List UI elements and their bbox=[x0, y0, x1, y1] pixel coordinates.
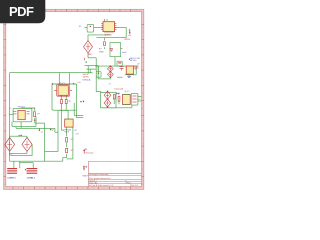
svg-text:Q?: Q? bbox=[137, 63, 139, 65]
svg-text:MCP?: MCP? bbox=[105, 35, 110, 37]
svg-text:Unnamed: Unnamed bbox=[115, 89, 124, 91]
svg-text:KiCad E.D.A. kicad 5.1.5: KiCad E.D.A. kicad 5.1.5 bbox=[89, 184, 114, 187]
svg-text:Size: A4: Size: A4 bbox=[89, 181, 98, 184]
svg-text:C?: C? bbox=[32, 108, 34, 110]
svg-text:R?: R? bbox=[37, 113, 39, 115]
svg-text:4k7: 4k7 bbox=[34, 120, 37, 122]
svg-text:C?: C? bbox=[41, 132, 43, 134]
svg-text:AT-100: AT-100 bbox=[130, 59, 136, 62]
svg-text:Rev:: Rev: bbox=[127, 182, 132, 184]
svg-text:A Simple Schematic: A Simple Schematic bbox=[89, 173, 109, 176]
svg-text:C?: C? bbox=[109, 84, 111, 86]
svg-text:R?: R? bbox=[69, 101, 71, 103]
svg-text:DNM: DNM bbox=[99, 52, 104, 54]
svg-text:GND?: GND? bbox=[82, 176, 88, 178]
svg-text:dev5: dev5 bbox=[122, 52, 126, 54]
svg-text:CONN-1: CONN-1 bbox=[27, 178, 36, 180]
svg-text:SW-P: SW-P bbox=[64, 132, 69, 134]
svg-text:R?: R? bbox=[71, 150, 73, 152]
svg-text:R?: R? bbox=[75, 130, 77, 132]
svg-text:PS2501: PS2501 bbox=[18, 107, 26, 109]
svg-text:VSYNC: VSYNC bbox=[83, 76, 90, 78]
svg-text:Unnamed: Unnamed bbox=[85, 152, 93, 154]
svg-text:Id: 1/1: Id: 1/1 bbox=[132, 185, 139, 187]
svg-text:R?: R? bbox=[71, 139, 73, 141]
svg-text:R?: R? bbox=[52, 130, 54, 132]
svg-text:+5: +5 bbox=[9, 108, 11, 110]
svg-text:DGND-A: DGND-A bbox=[82, 79, 91, 82]
svg-text:2x C?: 2x C? bbox=[125, 91, 130, 93]
svg-text:PDF: PDF bbox=[9, 4, 34, 19]
svg-text:CONN-1: CONN-1 bbox=[7, 178, 16, 180]
svg-text:JMP10: JMP10 bbox=[124, 39, 130, 41]
svg-text:Out: Out bbox=[137, 98, 141, 101]
